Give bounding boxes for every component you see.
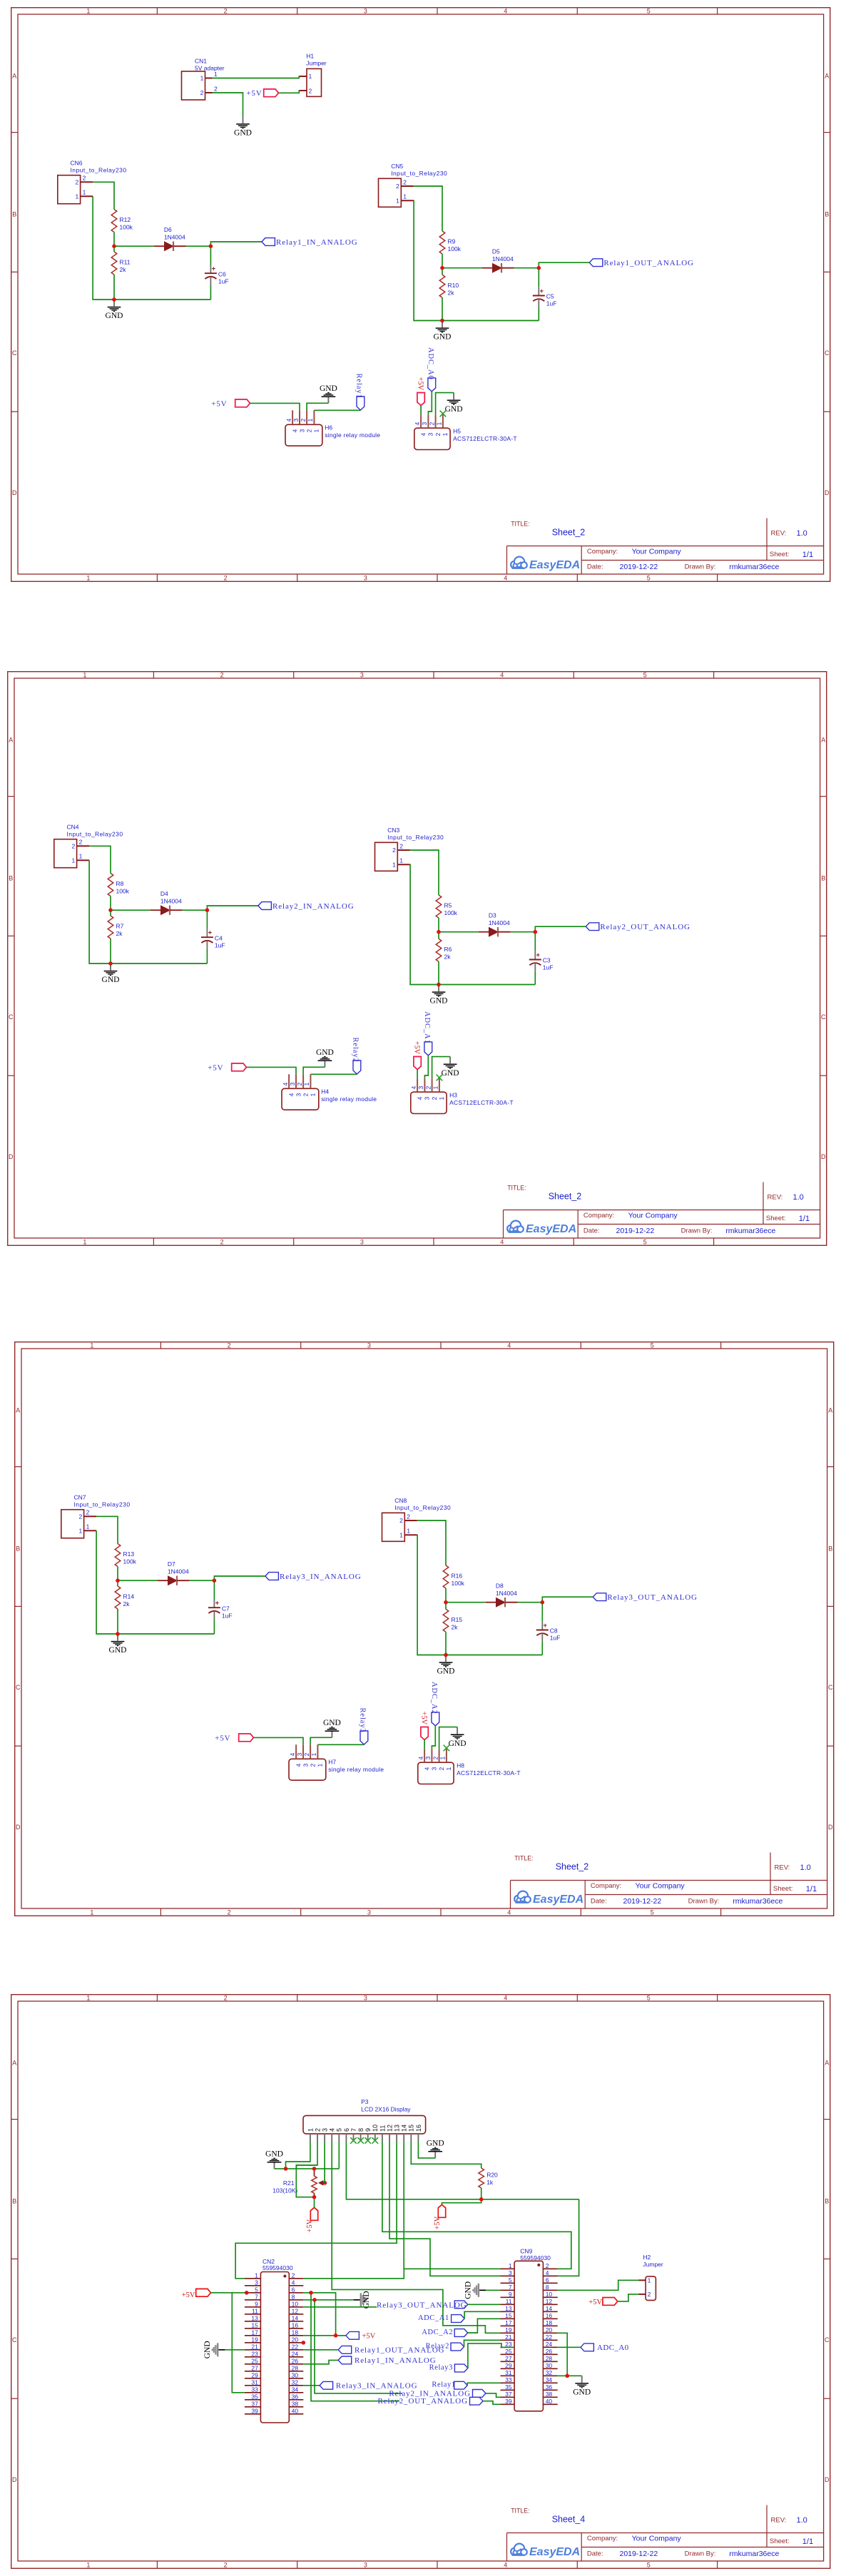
svg-text:2: 2 [291,2271,295,2279]
svg-text:26: 26 [291,2357,298,2364]
svg-text:40: 40 [545,2397,552,2404]
svg-text:4: 4 [413,422,420,426]
net label Relay2_OUT_ANALOG [377,2397,483,2406]
svg-text:1N4004: 1N4004 [160,897,181,904]
title block [503,1182,820,1238]
EasyEDA logo [512,1891,583,1908]
svg-text:2: 2 [428,422,435,426]
svg-text:1N4004: 1N4004 [491,255,513,262]
svg-text:3: 3 [508,2269,511,2276]
svg-text:+5V: +5V [412,1041,420,1054]
svg-text:18: 18 [545,2319,552,2326]
svg-text:5: 5 [646,7,650,14]
svg-text:2: 2 [430,1096,437,1100]
svg-text:D: D [9,1152,14,1160]
svg-text:REV:: REV: [775,1864,790,1872]
svg-text:1uF: 1uF [542,964,553,971]
svg-text:Relay2: Relay2 [351,1037,359,1062]
svg-text:1.0: 1.0 [796,529,807,538]
svg-text:3: 3 [417,1085,424,1089]
svg-text:4: 4 [504,574,507,581]
svg-text:5: 5 [646,2561,650,2568]
svg-text:3: 3 [424,1757,432,1760]
svg-text:B: B [12,2197,16,2204]
net label Relay3_IN_ANALOG [320,2381,417,2390]
svg-text:2k: 2k [116,930,123,937]
svg-text:4: 4 [507,1908,511,1916]
svg-text:P3: P3 [361,2098,369,2105]
svg-text:7: 7 [350,2127,357,2131]
svg-text:ADC_A1: ADC_A1 [417,2314,449,2322]
wire [541,1603,543,1622]
net label Relay2_OUT_ANALOG [586,922,690,931]
svg-text:1: 1 [86,1994,90,2001]
svg-text:31: 31 [505,2368,512,2376]
svg-text:100k: 100k [119,224,133,231]
wire [210,242,262,246]
wire [346,2141,578,2199]
svg-text:R20: R20 [486,2171,498,2178]
wire [467,2343,514,2368]
sheet border frame [11,1994,830,2568]
svg-text:B: B [821,874,825,881]
svg-text:1: 1 [310,1753,317,1757]
ground [464,2281,486,2299]
svg-text:3: 3 [360,671,363,678]
svg-text:ADC_A0: ADC_A0 [427,347,434,380]
svg-text:11: 11 [379,2125,386,2131]
svg-text:10: 10 [291,2300,298,2307]
svg-text:559594030: 559594030 [520,2254,551,2261]
svg-text:1: 1 [78,852,82,859]
svg-text:29: 29 [505,2361,512,2368]
svg-text:R7: R7 [116,922,123,929]
svg-text:22: 22 [291,2343,298,2350]
wire [225,2348,245,2350]
wire [206,910,208,929]
net flag +5V [215,1734,253,1742]
svg-text:rmkumar36ece: rmkumar36ece [729,2549,779,2557]
svg-text:21: 21 [505,2333,512,2340]
svg-text:Relay1_OUT_ANALOG: Relay1_OUT_ANALOG [603,259,694,267]
EasyEDA logo [505,1220,576,1237]
svg-text:Drawn By:: Drawn By: [681,1227,712,1235]
svg-text:2: 2 [71,842,75,849]
svg-text:1.0: 1.0 [796,2516,807,2525]
svg-text:EasyEDA: EasyEDA [529,559,580,571]
svg-text:2: 2 [214,85,218,92]
ground [109,1634,127,1655]
svg-text:Sheet:: Sheet: [769,551,788,558]
svg-text:GND: GND [203,2341,211,2358]
net label Relay2 [351,1037,360,1074]
potentiometer R21 103(10K) [272,2168,327,2197]
net flag +5V [412,1041,421,1069]
wire [315,2299,402,2393]
schematic sheet 3 [14,1341,835,1916]
wire [338,2141,340,2169]
svg-text:2: 2 [432,1757,439,1760]
node junction [205,908,209,912]
svg-text:33: 33 [505,2376,512,2383]
wire [557,2375,581,2376]
svg-text:Jumper: Jumper [643,2261,663,2268]
wire [117,1609,118,1634]
wire [534,971,536,984]
svg-text:+5V: +5V [362,2332,375,2340]
jumper H1 [300,52,327,96]
connector CN8 Input_to_Relay230 [382,1497,452,1541]
svg-text:2: 2 [424,1085,432,1089]
wire [438,961,439,984]
svg-text:100k: 100k [452,1580,465,1587]
svg-text:R6: R6 [444,945,452,952]
svg-text:R9: R9 [447,238,455,245]
node junction [112,244,116,248]
svg-text:Relay1_IN_ANALOG: Relay1_IN_ANALOG [276,238,358,247]
svg-text:ADC_A0: ADC_A0 [597,2344,629,2352]
svg-text:+5V: +5V [215,1734,230,1742]
svg-text:16: 16 [545,2311,552,2319]
svg-text:9: 9 [508,2290,511,2297]
svg-text:2: 2 [407,1513,410,1520]
svg-text:CN8: CN8 [394,1497,407,1504]
svg-text:4: 4 [409,1085,417,1089]
svg-text:B: B [12,211,16,218]
svg-text:30: 30 [291,2371,298,2378]
svg-text:1: 1 [399,1532,403,1539]
svg-text:15: 15 [407,2124,414,2131]
svg-text:10: 10 [545,2290,552,2297]
svg-text:R10: R10 [447,282,459,289]
svg-text:D4: D4 [160,890,168,897]
svg-text:3: 3 [321,2127,328,2131]
svg-text:100k: 100k [444,909,457,916]
node junction [213,1578,217,1583]
EasyEDA logo [509,2543,580,2560]
node junction [479,2197,483,2202]
svg-text:R8: R8 [116,880,123,887]
net label Relay1 [432,2381,467,2388]
wire [285,2141,310,2169]
current sensor H3 ACS712ELCTR-30A-T [409,1078,513,1113]
node junction [312,2298,317,2302]
wire [111,909,151,911]
wire [409,864,535,984]
svg-text:GND: GND [433,333,451,342]
svg-text:ACS712ELCTR-30A-T: ACS712ELCTR-30A-T [449,1098,514,1105]
svg-text:1uF: 1uF [214,941,225,949]
svg-text:H4: H4 [321,1088,329,1095]
wire [118,1580,158,1581]
svg-text:13: 13 [251,2314,258,2321]
svg-text:GND: GND [101,976,119,984]
net label Relay1_OUT_ANALOG [589,259,694,267]
svg-text:Date:: Date: [583,1227,599,1235]
svg-text:single relay module: single relay module [325,431,380,439]
svg-text:4: 4 [504,2561,507,2568]
wire [206,949,208,963]
svg-text:Relay3: Relay3 [429,2363,452,2371]
svg-text:1: 1 [303,1082,310,1085]
svg-text:12: 12 [545,2297,552,2304]
svg-text:R16: R16 [452,1573,463,1580]
wire [212,93,243,116]
net flag +5V [588,2297,618,2306]
svg-text:19: 19 [505,2326,512,2333]
svg-text:38: 38 [291,2400,298,2407]
svg-text:R12: R12 [119,216,131,223]
svg-text:H3: H3 [449,1091,457,1098]
svg-text:5V adapter: 5V adapter [195,65,225,72]
svg-text:4: 4 [289,1753,296,1757]
svg-text:D: D [12,2475,17,2483]
current sensor H5 ACS712ELCTR-30A-T [413,414,516,449]
node junction [116,1578,120,1583]
svg-text:B: B [9,874,13,881]
node junction [333,2334,337,2338]
svg-text:4: 4 [291,2279,295,2286]
svg-text:25: 25 [505,2347,512,2354]
svg-text:16: 16 [414,2124,422,2131]
svg-text:1/1: 1/1 [802,2537,812,2545]
svg-text:CN4: CN4 [66,823,78,830]
svg-text:15: 15 [251,2321,258,2329]
svg-text:+5V: +5V [208,1063,223,1072]
svg-text:2: 2 [545,2261,549,2269]
wire [483,2401,501,2404]
ground [441,1056,459,1077]
node junction [312,2194,316,2199]
wire [212,76,300,78]
wire [190,1580,215,1581]
wire [314,409,360,411]
wire [442,297,443,320]
wire [514,267,539,269]
svg-text:A: A [825,72,829,79]
net label Relay1_OUT_ANALOG [338,2346,444,2354]
connector CN5 Input_to_Relay230 [378,163,447,207]
ground [203,2341,225,2358]
svg-text:1: 1 [399,857,403,864]
svg-text:B: B [828,1545,832,1553]
svg-text:LCD 2X16 Display: LCD 2X16 Display [361,2105,411,2112]
svg-text:35: 35 [251,2393,258,2400]
svg-text:+: + [544,1622,548,1630]
svg-text:REV:: REV: [770,530,786,538]
resistor R16 100k [443,1565,464,1588]
svg-text:C4: C4 [214,934,222,941]
svg-text:2: 2 [78,838,82,845]
svg-text:27: 27 [505,2354,512,2361]
ground [437,1655,455,1676]
schematic sheet 2 [7,671,827,1246]
svg-text:33: 33 [251,2386,258,2393]
svg-text:Relay3_IN_ANALOG: Relay3_IN_ANALOG [280,1573,362,1581]
svg-text:CN6: CN6 [70,160,82,167]
svg-text:22: 22 [545,2333,552,2340]
svg-text:CN3: CN3 [387,827,399,834]
wire [557,2333,567,2376]
wire [96,1530,214,1634]
svg-text:rmkumar36ece: rmkumar36ece [725,1226,775,1235]
svg-text:2: 2 [392,847,396,854]
wire [324,2141,325,2183]
svg-text:5: 5 [651,1908,654,1916]
svg-text:EasyEDA: EasyEDA [533,1893,583,1906]
wire [442,254,443,275]
svg-text:9: 9 [255,2300,258,2307]
node junction [440,319,444,323]
wire [486,2393,501,2396]
svg-text:+5V: +5V [433,2216,441,2229]
diode D3 1N4004 [478,911,510,936]
svg-text:2: 2 [396,183,399,190]
svg-text:14: 14 [400,2124,407,2131]
ground [234,116,252,137]
wire [446,1602,486,1603]
svg-text:1: 1 [442,433,449,436]
wire [310,1073,357,1075]
ground [353,2291,370,2309]
current sensor H8 ACS712ELCTR-30A-T [417,1749,521,1784]
svg-text:5: 5 [646,1994,650,2001]
svg-text:3: 3 [255,2279,258,2286]
wire [557,2280,638,2290]
svg-text:7: 7 [508,2283,511,2290]
svg-text:C: C [828,1684,833,1691]
wire [439,931,479,932]
node junction [108,908,113,912]
svg-text:3: 3 [295,1093,302,1096]
wire [534,931,536,951]
svg-text:37: 37 [505,2390,512,2397]
wire [442,267,482,269]
svg-text:1: 1 [317,1764,324,1767]
schematic sheet 1 [11,7,831,582]
svg-text:Relay3_OUT_ANALOG: Relay3_OUT_ANALOG [377,2301,467,2309]
title block [511,1853,827,1909]
diode D7 1N4004 [158,1560,190,1585]
net label Relay1 [355,374,364,411]
svg-text:26: 26 [545,2347,552,2354]
wire [303,2348,338,2350]
net label Relay3_OUT_ANALOG [593,1593,698,1602]
svg-text:2: 2 [302,1093,309,1096]
svg-text:4: 4 [504,1994,507,2001]
net flag +5V [416,377,424,406]
svg-text:ACS712ELCTR-30A-T: ACS712ELCTR-30A-T [457,1769,521,1777]
wire [432,1726,435,1749]
wire [445,1588,447,1609]
svg-text:GND: GND [323,1719,341,1727]
svg-text:rmkumar36ece: rmkumar36ece [733,1897,783,1906]
svg-text:1: 1 [83,671,86,678]
svg-text:A: A [12,2059,16,2066]
node junction [444,1653,448,1657]
svg-text:Your Company: Your Company [628,1211,678,1220]
svg-text:1.0: 1.0 [792,1193,803,1202]
svg-text:100k: 100k [116,887,129,894]
net label ADC_A2 [430,1682,439,1726]
node junction [444,1600,448,1605]
wire [438,918,439,939]
svg-text:GND: GND [265,2150,283,2158]
net label Relay3_IN_ANALOG [265,1573,362,1581]
svg-text:4: 4 [500,671,504,678]
net label Relay3_OUT_ANALOG [377,2300,468,2309]
svg-text:34: 34 [291,2386,298,2393]
svg-text:36: 36 [291,2393,298,2400]
svg-text:38: 38 [545,2390,552,2397]
svg-text:Input_to_Relay230: Input_to_Relay230 [70,167,126,174]
wire [486,2289,500,2291]
svg-text:1: 1 [435,422,442,426]
svg-text:1: 1 [407,1528,410,1535]
net flag +5V [246,89,278,98]
net label ADC_A0 [427,347,436,392]
svg-text:4: 4 [287,1093,295,1096]
svg-text:Drawn By:: Drawn By: [684,2550,715,2557]
svg-text:31: 31 [251,2378,258,2386]
svg-text:13: 13 [393,2124,400,2131]
net label Relay1_IN_ANALOG [338,2356,436,2365]
svg-text:23: 23 [251,2350,258,2357]
svg-text:1uF: 1uF [222,1612,233,1619]
net label Relay3 [359,1708,368,1745]
ground [429,984,447,1005]
svg-text:3: 3 [427,433,434,436]
svg-text:Input_to_Relay230: Input_to_Relay230 [66,830,123,837]
svg-text:20: 20 [291,2336,298,2343]
svg-text:1: 1 [86,2561,90,2568]
net label Relay3 [429,2363,467,2371]
svg-text:+: + [536,951,540,959]
svg-text:34: 34 [545,2376,552,2383]
svg-text:21: 21 [251,2343,258,2350]
wire [617,2294,638,2301]
svg-text:D: D [828,1824,833,1831]
svg-text:1N4004: 1N4004 [488,919,509,926]
svg-text:3: 3 [367,1341,371,1349]
svg-text:R21: R21 [282,2179,294,2187]
svg-text:2: 2 [78,1513,82,1520]
svg-text:rmkumar36ece: rmkumar36ece [729,563,779,571]
svg-text:559594030: 559594030 [263,2264,293,2271]
svg-text:Relay3: Relay3 [359,1708,367,1733]
svg-text:D: D [824,489,829,496]
ground [101,964,119,984]
wire [303,2292,346,2335]
net flag +5V [420,1712,429,1740]
svg-text:2019-12-22: 2019-12-22 [616,1226,654,1235]
svg-text:29: 29 [251,2371,258,2378]
svg-text:Relay2_IN_ANALOG: Relay2_IN_ANALOG [272,901,355,910]
svg-text:36: 36 [545,2383,552,2390]
svg-text:3: 3 [298,429,305,433]
svg-text:2: 2 [399,1517,403,1524]
no-connect marks pins 7-10 [350,2137,378,2144]
svg-text:2: 2 [438,1767,445,1771]
svg-text:100k: 100k [123,1558,137,1565]
svg-text:1/1: 1/1 [798,1214,809,1222]
svg-text:+: + [539,287,544,295]
svg-text:1: 1 [78,1528,82,1535]
svg-text:Drawn By:: Drawn By: [684,563,715,571]
svg-text:24: 24 [291,2350,298,2357]
svg-text:1.0: 1.0 [800,1864,811,1872]
svg-text:GND: GND [315,1048,333,1056]
